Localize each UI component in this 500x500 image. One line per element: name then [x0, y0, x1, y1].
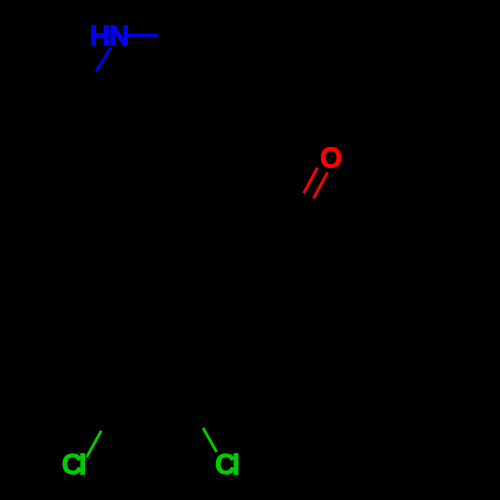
svg-text:N: N	[109, 21, 130, 53]
wire: bond C-Cl right (Cl half)	[203, 428, 217, 452]
svg-text:l: l	[79, 449, 87, 481]
svg-text:O: O	[320, 142, 342, 174]
wire: bond N1-CH3 (N half, horizontal)	[128, 34, 158, 37]
svg-text:H: H	[90, 21, 111, 53]
wire: C=O double bond line 2 (O half)	[314, 173, 328, 199]
wire: bond C-Cl left (Cl half)	[87, 431, 101, 457]
wire: bond N1-C (N half, diagonal)	[96, 48, 111, 72]
wire: C=O double bond line 1 (O half)	[304, 168, 318, 194]
svg-text:l: l	[232, 449, 240, 481]
